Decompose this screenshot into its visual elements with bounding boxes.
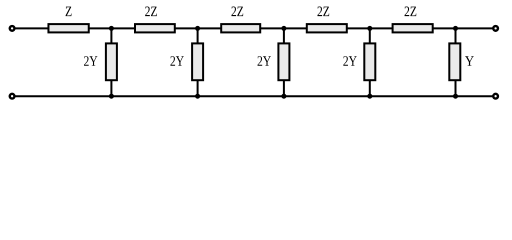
node junction dot 1 (top bus) [109,26,114,31]
node junction dot 2 (top bus) [195,26,200,31]
wire: node 4 top stub [369,27,371,44]
value label 2Z for Z3 [231,6,243,16]
wire: node 1 top stub [110,27,112,44]
node junction dot 5 (top bus) [453,26,458,31]
shunt admittance Y3 (value 2Y) [278,43,289,80]
terminal: bottom-right output port [493,94,498,99]
value label 2Z for Z2 [145,6,157,16]
value label Y for Y5 [465,56,474,65]
wire: node 3 top stub [283,27,285,44]
wire: node 4 bottom stub [369,81,371,98]
value label 2Y for Y3 [258,56,271,66]
wire: node 2 bottom stub [197,81,199,98]
series impedance Z2 (value 2Z) [135,24,175,32]
wire: bottom bus (return, lower rail) [15,95,494,97]
shunt admittance Y2 (value 2Y) [192,43,203,80]
node junction dot 4 (bottom bus) [367,94,372,99]
value label 2Y for Y1 [84,56,97,66]
node junction dot 3 (bottom bus) [281,94,286,99]
node junction dot 4 (top bus) [367,26,372,31]
wire: node 5 bottom stub [455,81,457,98]
wire: top bus (input to output, upper rail) [15,27,494,29]
terminal: bottom-left input port [10,94,15,99]
shunt admittance Y1 (value 2Y) [106,43,117,80]
shunt admittance Y4 (value 2Y) [364,43,375,80]
series impedance Z1 (value Z) [48,24,88,32]
wire: node 3 bottom stub [283,81,285,98]
series impedance Z5 (value 2Z) [393,24,433,32]
value label 2Z for Z5 [405,6,417,16]
value label 2Y for Y4 [343,56,356,66]
node junction dot 1 (bottom bus) [109,94,114,99]
node junction dot 3 (top bus) [281,26,286,31]
terminal: top-left input port [10,26,15,31]
shunt admittance Y5 (value Y) [449,43,460,80]
wire: node 5 top stub [455,27,457,44]
value label Z for Z1 [66,7,72,16]
node junction dot 2 (bottom bus) [195,94,200,99]
terminal: top-right output port [493,26,498,31]
wire: node 2 top stub [197,27,199,44]
series impedance Z4 (value 2Z) [307,24,347,32]
wire: node 1 bottom stub [110,81,112,98]
value label 2Z for Z4 [317,6,329,16]
series impedance Z3 (value 2Z) [221,24,260,32]
value label 2Y for Y2 [170,56,183,66]
node junction dot 5 (bottom bus) [453,94,458,99]
